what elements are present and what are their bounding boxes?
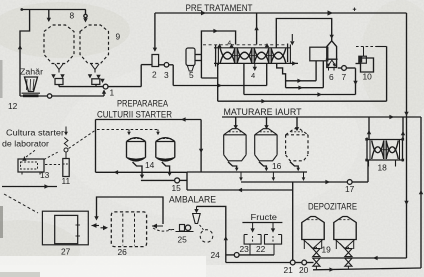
wire outer right drop: [420, 117, 422, 268]
svg-text:18: 18: [378, 163, 388, 173]
silo 8 (dashed tank): [44, 25, 74, 64]
wire pasteurizer outlet staircase: [277, 63, 286, 87]
wire drop tank16c: [296, 117, 298, 130]
culture dashed drop b: [157, 130, 159, 134]
svg-text:9: 9: [116, 32, 121, 42]
wire right riser to storage: [373, 256, 378, 260]
dashed crate link: [153, 228, 172, 231]
tick mark on header: [353, 8, 356, 12]
balance tank 2: [152, 55, 159, 67]
svg-text:10: 10: [363, 72, 373, 82]
wire tank2 to pump 3: [159, 64, 165, 66]
incubator 13: [18, 159, 44, 172]
silo 9 (dashed tank): [80, 25, 109, 64]
pump 20: [302, 260, 307, 265]
culture dashed line: [69, 131, 96, 149]
dashed line above homogenizer: [356, 46, 376, 48]
valve block under silo 8: [51, 74, 55, 78]
filler 25 parts: [180, 225, 185, 232]
pallet dashed circle: [200, 230, 213, 243]
tank16c outlet: [290, 162, 298, 170]
wire pump 7 to homogenizer: [346, 67, 355, 69]
wire to pump 15: [141, 179, 175, 181]
wire pump17 to cooler: [352, 181, 368, 183]
pump 24: [234, 253, 239, 258]
pump 7: [342, 66, 347, 71]
valve on silo 9 feed: [85, 10, 87, 15]
wire cooler feed legs: [368, 117, 370, 139]
pump 15: [175, 178, 180, 183]
svg-text:25: 25: [178, 235, 188, 245]
storage tank 19a: [302, 217, 324, 240]
pump on sugar line: [47, 94, 51, 98]
inoculation squiggle: [65, 127, 67, 134]
svg-text:3: 3: [164, 70, 169, 80]
wire sugar line to riser: [52, 95, 104, 97]
pasteurizer 4 plate pack: [214, 47, 290, 49]
arrows above pasteurizer: [217, 44, 221, 48]
wire top-left feed header: [22, 9, 86, 11]
wire 19a stack to bottom: [315, 266, 317, 270]
svg-text:24: 24: [211, 250, 221, 260]
wire separator to pump 7: [338, 67, 342, 69]
paper shading blotches: [0, 2, 130, 58]
wire starter rule: [96, 119, 202, 121]
wire drop into silo 8: [48, 10, 50, 22]
wire maturare drain riser: [292, 182, 294, 260]
wire drop to balance tank 2: [154, 13, 156, 51]
wire storage feed line: [320, 257, 406, 259]
white page margin bottom-left: [0, 256, 206, 277]
arrow above incubator: [22, 157, 26, 161]
wire return riser to header: [256, 13, 258, 45]
svg-text:4: 4: [228, 40, 232, 47]
wire stub into pasteurizer right end: [291, 34, 293, 41]
wire sugar line bottom: [20, 95, 47, 97]
wire step from header down to sugar line: [20, 10, 30, 97]
culture dashed drop a: [128, 130, 130, 134]
wire conveyor top loop: [97, 197, 164, 224]
cold room 26 (dashed): [111, 212, 146, 247]
tank 19b outlet valves: [340, 244, 348, 249]
svg-text:Cultura starter: Cultura starter: [6, 129, 64, 138]
svg-text:5: 5: [189, 70, 194, 80]
svg-text:8: 8: [70, 11, 75, 21]
smudge left edge b: [0, 206, 3, 238]
fruit tub 23: [244, 235, 261, 245]
sugar hopper 12: [25, 77, 38, 92]
smudge bottom edge: [0, 272, 40, 277]
arrow below pasteurizer: [253, 67, 257, 71]
arrow up on left riser: [18, 45, 22, 49]
svg-text:21: 21: [284, 265, 294, 275]
svg-text:23: 23: [240, 244, 250, 254]
wire starter right drop: [200, 120, 202, 172]
tank16a outlet: [228, 162, 237, 170]
wire filler loop: [197, 206, 226, 260]
maturare tank 16a: [224, 129, 246, 135]
wire stub bottom left: [2, 186, 57, 188]
svg-text:PRE TRATAMENT: PRE TRATAMENT: [186, 3, 253, 13]
svg-text:1: 1: [110, 88, 115, 98]
svg-text:14: 14: [145, 160, 155, 170]
svg-text:15: 15: [172, 183, 182, 193]
svg-text:DEPOZITARE: DEPOZITARE: [308, 202, 357, 212]
svg-text:AMBALARE: AMBALARE: [169, 195, 216, 205]
tank 14a outlet: [133, 162, 143, 176]
wire fructe header: [242, 222, 282, 224]
svg-text:MATURARE IAURT: MATURARE IAURT: [224, 107, 302, 117]
svg-text:19: 19: [322, 245, 332, 255]
maturare tank 16b: [255, 129, 277, 135]
cooler 18 plate pack: [366, 139, 404, 141]
wire separator feed: [276, 19, 331, 48]
filler funnel: [193, 214, 201, 224]
wire collection line upper: [96, 171, 188, 173]
wire under-pasteurizer drop b: [243, 63, 245, 94]
maturare tank 16c (dashed): [286, 129, 308, 135]
wire drop tank16b: [266, 117, 268, 128]
wire milk collect line: [59, 86, 103, 88]
wire collection line lower branch: [187, 189, 293, 191]
separator 6: [327, 41, 337, 68]
homogenizer 10: [361, 58, 374, 72]
wire skim return line: [218, 100, 387, 102]
svg-text:2: 2: [152, 70, 157, 80]
svg-text:Zahăr: Zahăr: [20, 68, 43, 77]
wire recirculation loop: [201, 31, 235, 78]
wire to separator box lower 2: [286, 87, 324, 89]
pump 21: [290, 260, 295, 265]
dashed inbound crates: [4, 194, 38, 213]
wire between pumps: [295, 262, 302, 264]
svg-text:27: 27: [61, 247, 71, 257]
separator standardization box: [310, 47, 328, 61]
svg-text:17: 17: [345, 184, 355, 194]
wire crate riser: [225, 261, 227, 263]
wire bottom crate line: [226, 262, 290, 264]
svg-text:4: 4: [251, 71, 255, 80]
starter tank 14b: [156, 138, 175, 142]
svg-text:22: 22: [256, 244, 266, 254]
wire pump 1 outlet: [108, 86, 141, 88]
valve block under silo 9: [88, 74, 92, 78]
svg-text:16: 16: [272, 161, 282, 171]
wire to separator box lower: [286, 80, 317, 82]
tank16b outlet: [259, 162, 266, 170]
wire pumps to storage outlet: [307, 262, 314, 264]
wire deaerator stubs: [195, 54, 201, 56]
wire pump 24 to fruit tubs: [239, 254, 274, 256]
svg-text:11: 11: [62, 176, 71, 186]
pump 17: [347, 180, 352, 185]
wire under-pasteurizer drop a: [217, 63, 219, 101]
wire maturare distribution header: [222, 116, 421, 118]
wire drop tank16a: [235, 117, 237, 128]
wire under-pasteurizer drop c: [266, 63, 268, 85]
deaerator 5: [186, 48, 195, 66]
dashed link 13 to 11: [45, 164, 60, 166]
smudge left edge a: [0, 60, 3, 98]
wire right main riser: [406, 13, 408, 258]
svg-text:20: 20: [299, 265, 309, 275]
wire pump 3 onward: [169, 64, 173, 66]
svg-text:26: 26: [118, 247, 128, 257]
fruit tub 22: [265, 235, 282, 245]
svg-text:7: 7: [342, 72, 347, 82]
wire cream line: [244, 94, 356, 96]
pump 1: [103, 84, 108, 89]
tank 14b outlet: [162, 162, 170, 174]
starter tank 14a: [127, 138, 146, 142]
svg-text:de laborator: de laborator: [2, 140, 49, 149]
flask 11: [63, 159, 69, 177]
wire storage bottom line: [313, 268, 421, 270]
tank 19a outlet valves: [308, 244, 316, 249]
wire starter left drop: [95, 120, 97, 173]
wire loop bottom: [201, 77, 217, 79]
wire riser from pump 1 line: [140, 65, 142, 87]
wire pump 15 outlet: [180, 179, 187, 181]
svg-text:13: 13: [40, 170, 50, 180]
wire collection box left edge: [186, 172, 188, 190]
pump 3: [164, 63, 169, 68]
svg-text:PREPARAREA: PREPARAREA: [117, 99, 168, 109]
storage tank 19b: [334, 217, 356, 240]
svg-text:CULTURII STARTER: CULTURII STARTER: [97, 110, 172, 120]
wire maturare to cooler: [241, 181, 347, 183]
svg-text:12: 12: [8, 101, 18, 111]
wire 19b stack to bottom: [347, 266, 349, 269]
crate store 27: [42, 211, 88, 245]
svg-text:6: 6: [329, 72, 334, 82]
wire feed line to pasteurizer: [173, 85, 267, 87]
bidirectional arrows 27-26: [92, 223, 97, 228]
wire pretratament header rule: [155, 12, 407, 14]
svg-text:Fructe: Fructe: [251, 213, 278, 222]
wire fructe pump line: [226, 254, 235, 256]
dashed heating line: [203, 44, 285, 46]
